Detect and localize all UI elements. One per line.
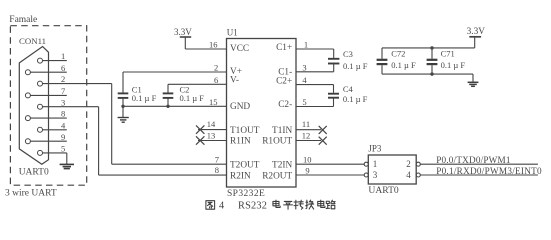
svg-text:P0.0/TXD0/PWM1: P0.0/TXD0/PWM1 bbox=[436, 155, 511, 165]
svg-text:10: 10 bbox=[303, 155, 312, 165]
svg-text:5: 5 bbox=[302, 97, 306, 107]
svg-text:U1: U1 bbox=[227, 28, 238, 38]
svg-text:C1+: C1+ bbox=[276, 43, 292, 53]
svg-text:0.1 µ F: 0.1 µ F bbox=[441, 60, 466, 70]
svg-text:9: 9 bbox=[61, 132, 65, 142]
svg-text:4: 4 bbox=[61, 120, 66, 130]
svg-text:UART0: UART0 bbox=[368, 185, 399, 196]
svg-text:T1OUT: T1OUT bbox=[230, 126, 260, 136]
svg-text:15: 15 bbox=[209, 97, 218, 107]
svg-text:2: 2 bbox=[406, 159, 411, 169]
svg-text:6: 6 bbox=[61, 63, 65, 73]
svg-text:1: 1 bbox=[61, 51, 65, 61]
svg-text:C2+: C2+ bbox=[276, 76, 292, 86]
svg-text:C72: C72 bbox=[391, 49, 405, 59]
svg-text:T1IN: T1IN bbox=[272, 126, 292, 136]
svg-text:0.1 µ F: 0.1 µ F bbox=[180, 93, 205, 103]
svg-text:T2IN: T2IN bbox=[272, 160, 292, 170]
svg-text:12: 12 bbox=[302, 130, 311, 140]
svg-text:CON11: CON11 bbox=[19, 36, 46, 46]
svg-text:GND: GND bbox=[230, 102, 250, 112]
svg-text:1: 1 bbox=[373, 159, 378, 169]
svg-text:4: 4 bbox=[406, 170, 411, 180]
svg-text:16: 16 bbox=[209, 40, 218, 50]
svg-text:P0.1/RXD0/PWM3/EINT0: P0.1/RXD0/PWM3/EINT0 bbox=[436, 166, 542, 176]
svg-text:JP3: JP3 bbox=[368, 144, 382, 154]
svg-text:6: 6 bbox=[214, 75, 218, 85]
svg-text:3 wire UART: 3 wire UART bbox=[5, 189, 57, 199]
svg-text:3: 3 bbox=[373, 170, 378, 180]
svg-text:0.1 µ F: 0.1 µ F bbox=[391, 60, 416, 70]
svg-text:V-: V- bbox=[230, 75, 239, 85]
svg-text:R2IN: R2IN bbox=[230, 172, 251, 182]
svg-text:UART0: UART0 bbox=[19, 168, 49, 178]
svg-text:C4: C4 bbox=[343, 84, 354, 94]
svg-text:SP3232E: SP3232E bbox=[227, 189, 265, 199]
svg-text:2: 2 bbox=[214, 63, 218, 73]
svg-text:7: 7 bbox=[61, 86, 65, 96]
svg-text:R1IN: R1IN bbox=[230, 137, 251, 147]
svg-text:0.1 µ F: 0.1 µ F bbox=[343, 94, 368, 104]
svg-text:2: 2 bbox=[61, 74, 65, 84]
svg-text:0.1 µ F: 0.1 µ F bbox=[343, 61, 368, 71]
svg-text:3: 3 bbox=[61, 97, 65, 107]
svg-text:C3: C3 bbox=[343, 49, 353, 59]
svg-text:0.1 µ F: 0.1 µ F bbox=[132, 93, 157, 103]
svg-text:RS232: RS232 bbox=[238, 201, 267, 212]
svg-text:Famale: Famale bbox=[9, 15, 37, 25]
svg-text:T2OUT: T2OUT bbox=[230, 160, 260, 170]
svg-text:13: 13 bbox=[207, 131, 216, 141]
svg-text:1: 1 bbox=[304, 40, 308, 50]
svg-text:3.3V: 3.3V bbox=[467, 27, 486, 37]
svg-text:3.3V: 3.3V bbox=[174, 27, 192, 37]
svg-text:5: 5 bbox=[61, 144, 65, 154]
svg-text:8: 8 bbox=[61, 109, 65, 119]
svg-text:VCC: VCC bbox=[230, 44, 249, 54]
svg-text:3: 3 bbox=[302, 62, 306, 72]
svg-text:R2OUT: R2OUT bbox=[262, 172, 292, 182]
svg-text:7: 7 bbox=[215, 154, 219, 164]
svg-text:14: 14 bbox=[207, 119, 216, 129]
svg-text:R1OUT: R1OUT bbox=[262, 137, 292, 147]
svg-text:C71: C71 bbox=[441, 49, 455, 59]
svg-text:C2-: C2- bbox=[278, 100, 292, 110]
svg-text:8: 8 bbox=[215, 165, 219, 175]
svg-text:11: 11 bbox=[302, 119, 310, 129]
svg-text:9: 9 bbox=[305, 166, 309, 176]
svg-text:4: 4 bbox=[219, 201, 224, 212]
